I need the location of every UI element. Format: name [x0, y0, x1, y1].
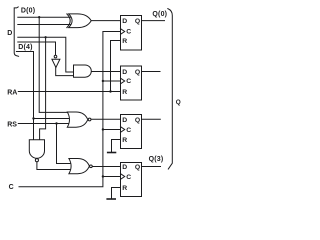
svg-text:D(0): D(0): [21, 8, 35, 15]
svg-text:D: D: [122, 69, 127, 76]
svg-text:C: C: [9, 184, 14, 191]
node junction RS branch: [55, 122, 57, 124]
nand gate U5 body: [29, 140, 44, 159]
svg-text:R: R: [122, 185, 127, 192]
node junction on D(0): [38, 16, 40, 18]
nor gate U4 output bubble: [90, 165, 93, 168]
svg-text:Q: Q: [135, 117, 140, 124]
wire RS branch down to NOR U4 input 1: [57, 124, 71, 164]
svg-text:Q: Q: [176, 99, 181, 106]
wire AND output to FF2 D: [91, 71, 121, 73]
svg-text:R: R: [122, 89, 127, 96]
svg-text:RA: RA: [7, 90, 17, 97]
flip-flop FF2: [121, 66, 142, 100]
svg-text:D(4): D(4): [18, 44, 32, 51]
bus bracket Q: [168, 9, 173, 169]
wire D(4) with vertical tap down to NAND input 1: [16, 52, 33, 141]
svg-text:Q(0): Q(0): [152, 11, 167, 18]
svg-text:C: C: [126, 174, 131, 181]
wire D(2) to AND input 1: [18, 37, 74, 72]
node junction C rail / FF2: [102, 80, 104, 82]
svg-text:C: C: [126, 78, 131, 85]
xor gate U1 body: [69, 14, 92, 28]
wire RS to NOR U3 input 3: [18, 123, 70, 125]
nand gate U5 output bubble: [35, 159, 38, 162]
node junction C rail / FF3: [102, 128, 104, 130]
ground for FF4 R: [107, 198, 115, 200]
svg-text:Q: Q: [135, 18, 140, 25]
wire D(1): [18, 24, 71, 26]
nor gate U4 body: [69, 159, 90, 174]
nor gate U3 body: [67, 112, 88, 127]
wire D(2) tap down to NAND input 2: [40, 37, 46, 140]
wire FF4 R to ground: [112, 188, 121, 199]
wire C branch to FF3: [103, 129, 121, 131]
svg-text:Q(3): Q(3): [149, 156, 164, 163]
wire D(3) to inverter input: [18, 42, 56, 55]
inverter U2 triangle: [52, 59, 60, 67]
flip-flop FF1: [121, 16, 142, 51]
wire C clock rail: [19, 32, 121, 187]
wire C branch to FF2: [103, 80, 121, 82]
svg-text:D: D: [122, 117, 127, 124]
svg-text:C: C: [126, 127, 131, 134]
svg-text:Q: Q: [135, 164, 140, 171]
bus bracket D: [14, 7, 18, 56]
flip-flop FF3: [121, 115, 142, 149]
wire XOR output to FF1 D: [91, 20, 121, 22]
svg-text:R: R: [122, 38, 127, 45]
wire FF1 Q output: [142, 20, 165, 22]
svg-text:RS: RS: [7, 121, 17, 128]
wire FF3 Q output: [142, 118, 161, 120]
and gate U2A: [74, 65, 92, 77]
wire NOR U3 input 2 from D(4) tap: [34, 118, 71, 120]
wire FF2 Q output: [142, 71, 161, 73]
svg-text:C: C: [126, 29, 131, 36]
node junction RA / R rail: [109, 90, 111, 92]
wire NOR U4 output to FF4 D: [92, 166, 120, 168]
svg-text:D: D: [122, 164, 127, 171]
ground for FF3 R: [108, 152, 116, 154]
wire FF3 R to ground: [112, 140, 121, 153]
wire FF4 Q output: [142, 166, 161, 168]
svg-text:D: D: [7, 30, 12, 37]
node junction on D(2): [44, 36, 46, 38]
svg-text:D: D: [122, 18, 127, 25]
wire NOR U3 output to FF3 D: [91, 118, 121, 120]
xor gate U1 input arc: [67, 14, 70, 28]
wire inverter output to AND input 2: [56, 68, 74, 76]
wire D(0): [18, 16, 71, 18]
wire RA to FF2 R: [18, 91, 120, 93]
node junction C rail / FF4: [102, 175, 104, 177]
svg-text:R: R: [122, 137, 127, 144]
wire C branch to FF4: [103, 176, 121, 178]
nor gate U3 output bubble: [88, 118, 91, 121]
svg-text:Q: Q: [135, 69, 140, 76]
flip-flop FF4: [121, 163, 142, 197]
node junction on D(4) tap: [32, 117, 34, 119]
wire NAND output to NOR U4 input 2: [37, 162, 70, 170]
wire D(0) tap down to NOR U3 input 1: [39, 17, 70, 112]
wire R rail up to FF1 R: [111, 41, 121, 92]
inverter U2 bubble: [54, 55, 57, 58]
